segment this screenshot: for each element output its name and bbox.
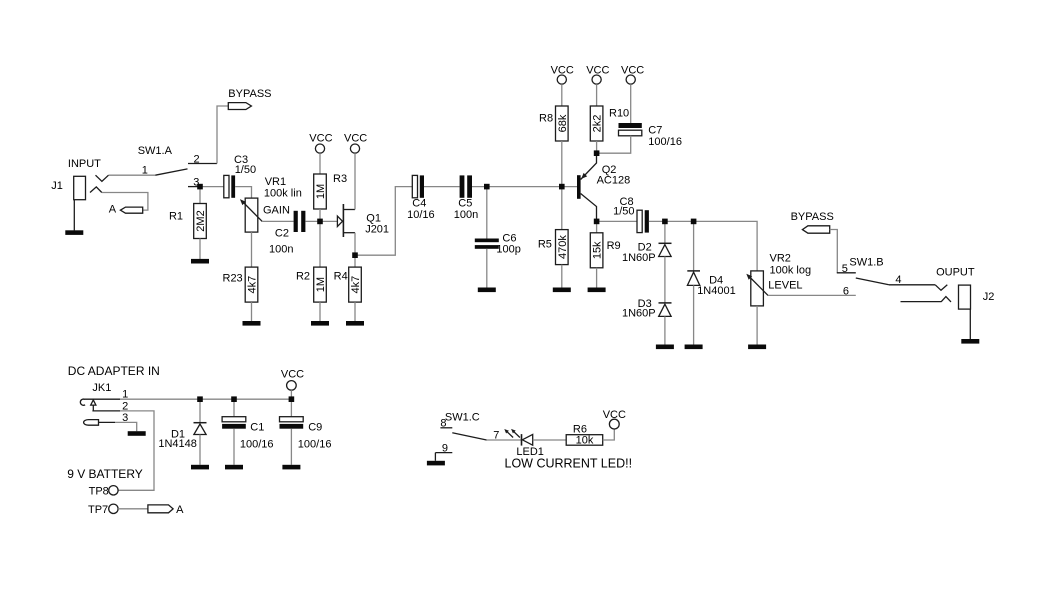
pin 3 label SW1.A [193, 177, 199, 189]
wire LED1 to R6 [533, 439, 567, 441]
pin 7 label SW1.C [493, 430, 499, 442]
ground at D1 [191, 465, 209, 470]
wire VCC to R10 [596, 84, 598, 106]
wire D2 to D3 [664, 257, 666, 303]
resistor R5 [538, 230, 569, 265]
svg-text:R3: R3 [333, 173, 347, 185]
svg-text:R6: R6 [573, 423, 587, 435]
wire SW1.A pin2 to BYPASS flag [217, 106, 228, 164]
wire junction to R4 [354, 255, 356, 267]
svg-text:Q1: Q1 [366, 212, 381, 224]
resistor R23 [223, 267, 259, 302]
svg-text:1M: 1M [315, 184, 327, 199]
svg-text:1/50: 1/50 [235, 164, 256, 176]
svg-text:470k: 470k [557, 235, 569, 259]
potentiometer VR1 [240, 176, 302, 232]
ground at VR2 [748, 345, 766, 350]
svg-text:6: 6 [843, 286, 849, 298]
power VCC above R8 [551, 65, 574, 85]
svg-text:VCC: VCC [551, 65, 574, 77]
svg-text:1: 1 [142, 164, 148, 176]
svg-text:100/16: 100/16 [648, 136, 682, 148]
wire Q1 source down [354, 233, 356, 256]
wire C3 to VR1 [235, 187, 251, 199]
svg-text:100k log: 100k log [770, 264, 812, 276]
wire C8 to VR2 [649, 221, 757, 271]
power VCC above C7 [621, 65, 644, 85]
connector J2 output jack [901, 267, 995, 310]
svg-text:VCC: VCC [344, 132, 367, 144]
wire junction to D1 [199, 399, 201, 423]
capacitor C8 [613, 196, 649, 233]
svg-text:R4: R4 [334, 270, 348, 282]
wire J1 ring to net A [102, 193, 148, 211]
wire R8 to base row [561, 141, 563, 187]
svg-text:R23: R23 [223, 273, 243, 285]
svg-text:VR2: VR2 [770, 253, 791, 265]
svg-text:2: 2 [194, 154, 200, 166]
transistor Q1 JFET [337, 204, 389, 237]
ground at R1 [191, 259, 209, 264]
node input junction [197, 184, 203, 190]
svg-text:J201: J201 [365, 224, 389, 236]
resistor R4 [334, 267, 362, 302]
LED LED1 [504, 429, 544, 458]
resistor R3 [314, 173, 347, 209]
ground at R5 [553, 288, 571, 293]
wire R23 to ground [251, 302, 253, 321]
pin 1 label SW1.A [142, 164, 148, 176]
svg-text:2k2: 2k2 [592, 115, 604, 133]
svg-text:VCC: VCC [281, 368, 304, 380]
pin 5 label SW1.B [842, 263, 848, 275]
svg-text:TP7: TP7 [88, 504, 108, 516]
wire collector junction to C8 [597, 220, 637, 222]
node gate junction [317, 219, 323, 225]
svg-text:BYPASS: BYPASS [791, 211, 834, 223]
wire VCC to Q1 drain [354, 153, 356, 209]
text DC ADAPTER IN [68, 364, 160, 378]
ground at R9 [588, 288, 606, 293]
wire R5 to ground [561, 265, 563, 288]
node D2 junction [662, 219, 668, 225]
wire D4 to ground [693, 285, 695, 344]
power VCC above R3 [309, 132, 332, 153]
capacitor C6 [475, 233, 521, 256]
switch SW1.A [138, 145, 217, 186]
resistor R8 [539, 106, 569, 141]
svg-text:R5: R5 [538, 238, 552, 250]
svg-text:VCC: VCC [603, 409, 626, 421]
svg-text:4k7: 4k7 [247, 276, 259, 294]
svg-text:BYPASS: BYPASS [228, 88, 271, 100]
svg-text:INPUT: INPUT [68, 158, 101, 170]
svg-text:4: 4 [895, 274, 901, 286]
capacitor C3 [224, 154, 256, 198]
svg-text:9 V BATTERY: 9 V BATTERY [67, 467, 143, 481]
pin 2 label JK1 [122, 400, 128, 412]
svg-text:100/16: 100/16 [240, 439, 274, 451]
pin 1 label JK1 [122, 388, 128, 400]
node rail-C9 junction [289, 396, 295, 402]
ground at JK1 pin3 [128, 431, 146, 436]
svg-text:VR1: VR1 [265, 176, 286, 188]
wire junction to R1 [199, 187, 201, 204]
wire VCC to R3 [319, 153, 321, 174]
ground at C6 [478, 288, 496, 293]
ground at C9 [282, 465, 300, 470]
wire SW1.C pin7 to LED1 [487, 439, 522, 441]
svg-text:OUPUT: OUPUT [936, 267, 975, 279]
transistor Q2 [577, 156, 630, 219]
text 9 V BATTERY [67, 467, 143, 481]
svg-text:R2: R2 [296, 270, 310, 282]
node Q1 source junction [352, 252, 358, 258]
svg-text:C2: C2 [275, 228, 289, 240]
wire R10 to emitter junction [596, 141, 598, 153]
wire Q1 source to C4 [355, 187, 412, 256]
wire C6 to ground [486, 249, 488, 288]
capacitor C5 [454, 175, 478, 221]
svg-text:VCC: VCC [586, 65, 609, 77]
wire R1 to ground [199, 239, 201, 260]
diode D2 [622, 242, 672, 264]
svg-text:9: 9 [442, 443, 448, 455]
wire TP7 to net A flag [118, 508, 148, 510]
switch SW1.C [435, 411, 486, 461]
wire VR1 wiper to C2 [262, 220, 293, 222]
wire VR2 to ground [756, 306, 758, 345]
wire VCC to C7 [630, 84, 632, 123]
node Q2 emitter junction [594, 150, 600, 156]
svg-text:SW1.B: SW1.B [849, 257, 883, 269]
net flag A (input) [109, 203, 143, 215]
power VCC above Q1 [344, 132, 367, 153]
node base junction [559, 184, 565, 190]
capacitor C7 [619, 123, 682, 148]
text LOW CURRENT LED!! [505, 457, 633, 471]
svg-text:1N60P: 1N60P [622, 252, 656, 264]
power VCC adapter rail [281, 368, 304, 390]
svg-text:100k lin: 100k lin [264, 187, 302, 199]
wire junction to C1 [233, 399, 235, 417]
wire JK1 pin1 rail [120, 398, 291, 400]
wire junction to D4 [693, 221, 695, 271]
svg-text:5: 5 [842, 263, 848, 275]
svg-text:A: A [109, 203, 117, 215]
ground at C1 [225, 465, 243, 470]
wire D1 to ground [199, 435, 201, 465]
svg-text:VCC: VCC [621, 65, 644, 77]
wire junction to R2 [319, 221, 321, 267]
wire junction to C9 [290, 399, 292, 417]
power VCC at LED [603, 409, 626, 429]
wire D3 to ground [664, 316, 666, 344]
ground at D4 [685, 345, 703, 350]
resistor R6 [566, 423, 603, 446]
svg-text:C1: C1 [250, 422, 264, 434]
ground at R23 [243, 321, 261, 326]
svg-text:R1: R1 [169, 211, 183, 223]
diode D1 [158, 423, 206, 450]
svg-text:68k: 68k [557, 114, 569, 132]
svg-text:C7: C7 [648, 125, 662, 137]
svg-text:C4: C4 [412, 198, 426, 210]
capacitor C4 [407, 175, 435, 221]
svg-text:LOW CURRENT LED!!: LOW CURRENT LED!! [505, 457, 633, 471]
svg-text:4k7: 4k7 [350, 276, 362, 294]
ground at R4 [346, 321, 364, 326]
wire R3 to junction [319, 209, 321, 221]
wire VCC to rail [290, 390, 292, 399]
svg-text:DC ADAPTER IN: DC ADAPTER IN [68, 364, 160, 378]
wire J1 tip to SW1.A pin 1 [109, 174, 156, 176]
connector J1 input jack [51, 158, 108, 200]
resistor R9 [590, 233, 620, 268]
node rail-C1 junction [231, 396, 237, 402]
resistor R2 [296, 267, 327, 302]
svg-text:R9: R9 [607, 240, 621, 252]
diode D3 [622, 298, 672, 320]
svg-text:1N4148: 1N4148 [158, 438, 197, 450]
wire C9 to ground [290, 429, 292, 465]
svg-text:8: 8 [440, 418, 446, 430]
svg-text:100n: 100n [269, 244, 293, 256]
wire C4 to C5 [424, 186, 460, 188]
svg-text:J1: J1 [51, 180, 63, 192]
potentiometer VR2 [746, 253, 811, 306]
svg-text:C9: C9 [308, 422, 322, 434]
test point TP7 [88, 504, 118, 516]
svg-text:A: A [176, 504, 184, 516]
svg-text:VCC: VCC [309, 132, 332, 144]
svg-text:1M: 1M [315, 277, 327, 292]
wire junction to C6 [486, 187, 488, 239]
wire C1 to ground [233, 429, 235, 465]
pin 3 label JK1 [122, 412, 128, 424]
pin 4 label SW1.B [895, 274, 901, 286]
wire VR2 wiper to SW1.B pin 6 [768, 294, 856, 296]
ground at R2 [311, 321, 329, 326]
wire C7 to emitter junction [597, 136, 631, 153]
svg-text:C5: C5 [458, 198, 472, 210]
capacitor C1 [222, 417, 273, 451]
node D4 junction [691, 219, 697, 225]
resistor R10 [590, 106, 629, 141]
wire JK1 pin2 to TP8 [118, 411, 154, 490]
net flag A (TP7) [148, 504, 184, 516]
pin 9 label SW1.C [442, 443, 448, 455]
wire junction to R5 [561, 187, 563, 230]
wire BYPASS to SW1.B pin 5 [830, 230, 838, 273]
svg-text:R8: R8 [539, 112, 553, 124]
svg-text:1N60P: 1N60P [622, 308, 656, 320]
pin 6 label SW1.B [843, 286, 849, 298]
svg-text:LEVEL: LEVEL [768, 280, 802, 292]
test point TP8 [89, 486, 118, 498]
ground at J1 [65, 200, 83, 235]
pin 8 label SW1.C [440, 418, 446, 430]
svg-text:SW1.C: SW1.C [445, 411, 480, 423]
wire VCC to R8 [561, 84, 563, 106]
svg-text:SW1.A: SW1.A [138, 145, 173, 157]
net flag BYPASS (left) [228, 88, 271, 109]
capacitor C2 [269, 211, 305, 256]
pin 2 label SW1.A [194, 154, 200, 166]
svg-text:1/50: 1/50 [613, 206, 634, 218]
ground at J2 [961, 309, 979, 344]
svg-text:100/16: 100/16 [298, 439, 332, 451]
node Q2 collector junction [594, 219, 600, 225]
resistor R1 [169, 204, 207, 239]
wire C5 to Q2 base [472, 186, 577, 188]
svg-text:TP8: TP8 [89, 486, 109, 498]
net flag BYPASS (right) [791, 211, 834, 233]
wire R4 to ground [354, 302, 356, 321]
wire R6 to VCC [603, 429, 615, 440]
wire JK1 pin3 to ground [115, 422, 137, 431]
svg-text:100p: 100p [496, 244, 520, 256]
switch SW1.B [837, 257, 935, 285]
ground at SW1.C [427, 461, 445, 466]
svg-text:GAIN: GAIN [263, 205, 290, 217]
wire C2 to Q1 gate [305, 220, 337, 222]
power VCC above R10 [586, 65, 609, 85]
ground at D3 [656, 345, 674, 350]
wire junction to D2 [664, 221, 666, 243]
wire R9 to ground [596, 268, 598, 288]
svg-text:J2: J2 [983, 291, 995, 303]
wire VR1 to R23 [251, 232, 253, 267]
svg-text:100n: 100n [454, 209, 478, 221]
wire collector junction to R9 [596, 221, 598, 232]
node C5-C6 junction [484, 184, 490, 190]
svg-text:2M2: 2M2 [195, 210, 207, 231]
diode D4 [687, 271, 735, 297]
svg-text:AC128: AC128 [597, 174, 631, 186]
connector JK1 [80, 382, 120, 425]
capacitor C9 [280, 417, 332, 451]
svg-text:1N4001: 1N4001 [697, 285, 736, 297]
wire junction to C3 [200, 186, 224, 188]
svg-text:JK1: JK1 [92, 382, 111, 394]
svg-text:10k: 10k [576, 435, 594, 447]
svg-text:10/16: 10/16 [407, 209, 435, 221]
wire R2 to ground [319, 302, 321, 321]
svg-text:R10: R10 [609, 108, 629, 120]
svg-text:15k: 15k [592, 241, 604, 259]
node rail-D1 junction [197, 396, 203, 402]
